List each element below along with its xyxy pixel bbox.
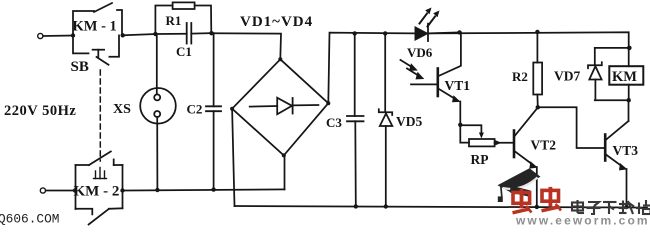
node C2 bottom <box>211 187 215 191</box>
capacitor C2 <box>206 33 221 189</box>
wire XS branch top <box>156 34 158 94</box>
relay coil KM <box>609 66 643 100</box>
svg-text:XS: XS <box>113 102 131 117</box>
watermark text zhan <box>636 200 650 214</box>
resistor R2 <box>533 32 542 107</box>
svg-text:VD5: VD5 <box>396 114 422 129</box>
svg-text:R2: R2 <box>512 69 528 84</box>
top rail relay <box>595 47 629 49</box>
watermark text xia <box>603 202 617 214</box>
watermark text zi <box>587 202 601 214</box>
svg-text:VT2: VT2 <box>531 138 557 153</box>
LED VD6 <box>415 8 439 42</box>
node C <box>153 32 157 36</box>
resistor R1 <box>155 2 211 34</box>
node C3 top <box>353 31 357 35</box>
node VT3 emitter bottom <box>624 205 628 209</box>
svg-text:C3: C3 <box>326 115 342 130</box>
node D <box>209 31 213 35</box>
wire node B to node C <box>123 34 156 35</box>
wire bridge bottom to AC bus <box>284 155 286 189</box>
contact KM-1 <box>73 3 122 36</box>
node VT2 emitter bottom <box>535 205 539 209</box>
wire node D to bridge top <box>212 33 282 59</box>
node I collector junction <box>536 105 540 109</box>
zener diode VD5 <box>379 33 393 206</box>
svg-text:KM - 2: KM - 2 <box>74 184 120 200</box>
wire bridge left to DC minus <box>232 109 234 206</box>
svg-text:SB: SB <box>71 59 89 75</box>
node J <box>627 46 632 51</box>
DC minus bus <box>235 206 648 208</box>
watermark text zai <box>619 201 635 215</box>
node F <box>120 188 124 192</box>
wire L1 to node A <box>43 35 73 38</box>
node XS bottom <box>155 188 159 192</box>
node E <box>73 188 77 192</box>
node G <box>457 30 461 34</box>
contact KM-2 <box>76 152 123 225</box>
node C3 bottom <box>354 204 358 208</box>
terminal L1 <box>38 33 43 38</box>
node R2 top <box>535 30 539 34</box>
node H <box>458 123 462 127</box>
socket XS <box>140 88 176 190</box>
watermark chong glyph 2 <box>542 187 562 211</box>
phototransistor VT1 <box>401 32 461 124</box>
wire L2 to KM-2 <box>46 190 75 192</box>
transistor VT2 <box>514 108 538 207</box>
svg-text:VD6: VD6 <box>407 45 433 60</box>
node B <box>121 33 125 37</box>
bridge rectifier VD1-VD4 <box>230 57 330 157</box>
capacitor C3 <box>347 33 364 206</box>
svg-text:VD7: VD7 <box>554 69 580 84</box>
svg-text:VT3: VT3 <box>613 143 639 158</box>
wire bridge right to DC plus <box>328 33 415 104</box>
bottom rail relay <box>595 99 629 101</box>
watermark graduation cap <box>498 168 541 202</box>
node K <box>627 98 631 102</box>
node A <box>71 33 75 37</box>
wire VT2 collector to VT3 base <box>538 107 605 148</box>
svg-text:C1: C1 <box>176 44 192 59</box>
svg-text:R1: R1 <box>166 13 182 28</box>
potentiometer RP <box>460 125 513 147</box>
wire VD6 to node G <box>428 32 460 33</box>
pushbutton SB <box>73 35 119 64</box>
svg-text:RP: RP <box>471 152 489 167</box>
transistor VT3 <box>605 100 628 207</box>
svg-text:KM - 1: KM - 1 <box>73 19 117 35</box>
svg-text:C2: C2 <box>187 102 203 117</box>
node VD5 top <box>383 31 387 35</box>
node VD5 bottom <box>384 204 388 208</box>
svg-text:www.eeworm.com: www.eeworm.com <box>515 214 650 228</box>
svg-text:220V 50Hz: 220V 50Hz <box>4 103 76 119</box>
bottom AC bus <box>123 189 285 190</box>
watermark chong glyph 1 <box>513 189 532 213</box>
svg-text:VD1~VD4: VD1~VD4 <box>240 14 313 30</box>
dashed mechanical link <box>99 70 101 161</box>
wire DC plus bus right <box>428 32 629 66</box>
terminal L2 <box>40 188 45 193</box>
svg-text:VT1: VT1 <box>445 78 471 93</box>
svg-text:KM: KM <box>612 69 637 85</box>
linkage anchor <box>94 168 107 179</box>
watermark text dian <box>572 200 584 213</box>
flyback diode VD7 <box>588 48 602 100</box>
capacitor C1 <box>155 23 211 44</box>
svg-text:Q606.COM: Q606.COM <box>0 212 59 227</box>
